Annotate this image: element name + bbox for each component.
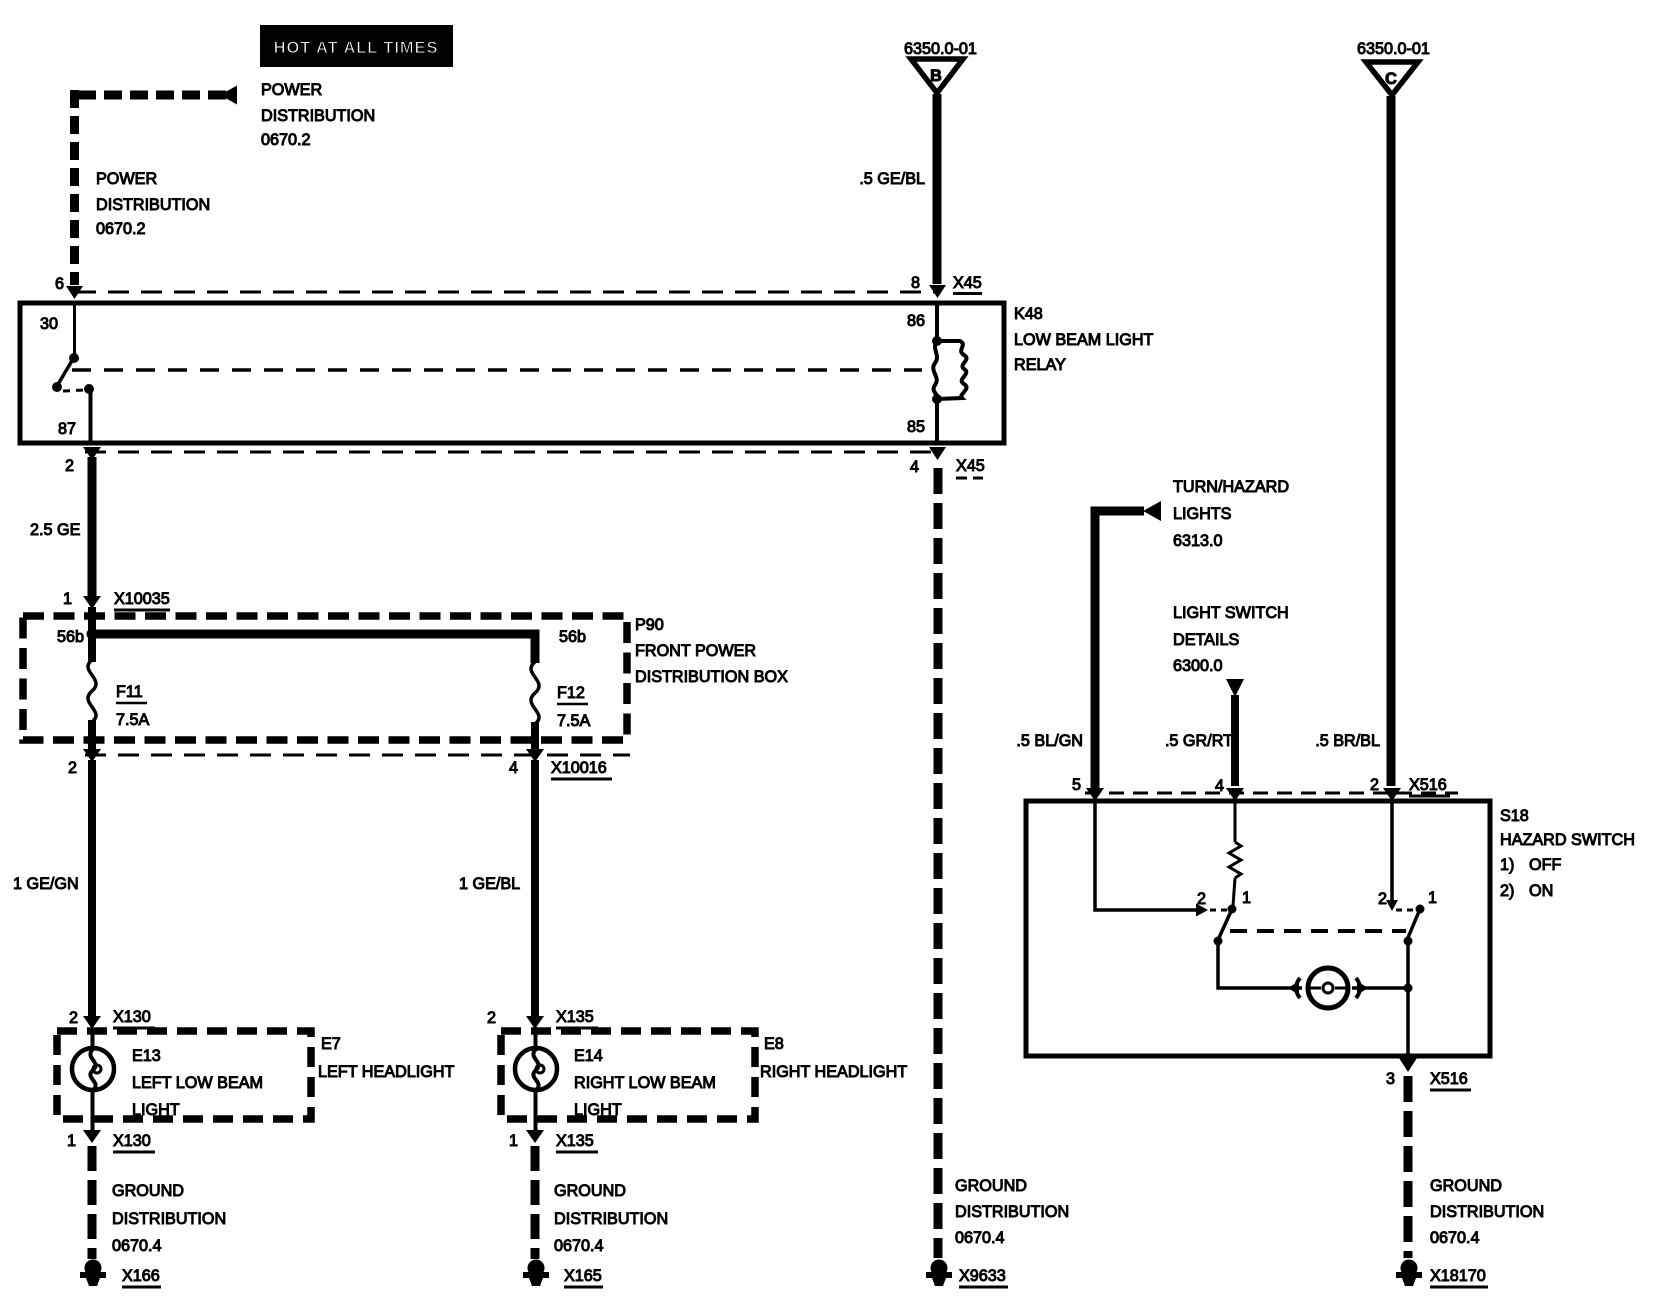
wire: ground distribution left (dashed) xyxy=(88,1146,97,1259)
relay switch lever end dot xyxy=(52,382,62,392)
svg-text:86: 86 xyxy=(907,312,925,330)
svg-text:B: B xyxy=(930,67,942,85)
svg-text:2.5 GE: 2.5 GE xyxy=(30,521,81,539)
contact dash (right switch) xyxy=(1396,909,1415,912)
label K48 low beam light relay xyxy=(1014,305,1154,374)
wire 2.5 GE xyxy=(88,457,97,598)
wire .5 GR/RT xyxy=(1231,695,1239,786)
bulb E14 lead bottom xyxy=(534,1089,538,1131)
relay switch lever xyxy=(57,359,73,386)
connector X45 label (bottom) xyxy=(956,457,985,478)
lamp arrows left xyxy=(1296,978,1300,998)
svg-text:RIGHT HEADLIGHT: RIGHT HEADLIGHT xyxy=(760,1063,907,1081)
wire: relay internal dashed line xyxy=(72,368,922,372)
right switch pivot dot xyxy=(1416,905,1425,914)
svg-text:X10035: X10035 xyxy=(114,590,170,608)
label ground distribution 0670.4 (right headlight) xyxy=(554,1182,668,1255)
svg-text:0670.4: 0670.4 xyxy=(554,1237,604,1255)
svg-text:1: 1 xyxy=(1428,889,1437,907)
svg-text:1: 1 xyxy=(509,1132,518,1150)
ground symbol X9633 xyxy=(926,1260,952,1287)
svg-text:GROUND: GROUND xyxy=(112,1182,184,1200)
pin 30 wire xyxy=(73,305,76,355)
junction pin 4 arrow (relay 85 out) xyxy=(929,447,946,460)
junction pin 2 arrow (S18) xyxy=(1383,788,1401,801)
wire: turn/hazard lights branch xyxy=(1095,511,1144,788)
svg-text:3: 3 xyxy=(1386,1070,1395,1088)
svg-text:0670.4: 0670.4 xyxy=(955,1229,1005,1247)
svg-text:GROUND: GROUND xyxy=(554,1182,626,1200)
svg-text:LOW BEAM LIGHT: LOW BEAM LIGHT xyxy=(1014,331,1154,349)
svg-text:85: 85 xyxy=(907,418,925,436)
svg-text:X516: X516 xyxy=(1430,1070,1468,1088)
svg-text:DISTRIBUTION: DISTRIBUTION xyxy=(96,196,210,214)
wire: dashed connector line X516 xyxy=(1085,792,1458,795)
svg-text:1 GE/BL: 1 GE/BL xyxy=(459,875,520,893)
svg-text:LIGHT SWITCH: LIGHT SWITCH xyxy=(1173,604,1289,622)
svg-text:LEFT LOW BEAM: LEFT LOW BEAM xyxy=(132,1074,263,1092)
svg-text:P90: P90 xyxy=(635,616,664,634)
svg-text:LIGHTS: LIGHTS xyxy=(1173,505,1232,523)
wire 1 GE/BL xyxy=(531,760,539,1016)
wire: power feed dashed (hot at all times) xyxy=(70,90,226,285)
svg-text:X135: X135 xyxy=(556,1132,594,1150)
arrow: light switch details xyxy=(1226,679,1244,697)
label F12 7.5A xyxy=(557,684,591,730)
svg-text:X9633: X9633 xyxy=(959,1267,1006,1285)
wire pin 2 inside S18 xyxy=(1390,800,1394,901)
svg-text:4: 4 xyxy=(1215,777,1224,795)
label S18 hazard switch xyxy=(1500,807,1635,900)
junction pin 2 arrow (P90 left out) xyxy=(83,749,101,762)
svg-text:E13: E13 xyxy=(132,1047,161,1065)
svg-text:1 GE/GN: 1 GE/GN xyxy=(13,875,79,893)
wire: ground distribution relay 85 (dashed) xyxy=(934,468,943,1258)
wire F11 to pin 2 xyxy=(88,720,96,750)
wire .5 BR/BL from C xyxy=(1387,96,1396,786)
arrow: power distribution page reference xyxy=(220,86,237,105)
svg-text:DISTRIBUTION: DISTRIBUTION xyxy=(955,1203,1069,1221)
hazard switch S18 box xyxy=(1026,801,1490,1056)
svg-text:0670.2: 0670.2 xyxy=(96,220,146,238)
wire right lever down xyxy=(1406,941,1410,1055)
connector X130 label (bottom) xyxy=(113,1132,155,1152)
svg-text:7.5A: 7.5A xyxy=(557,712,591,730)
connector X10035 label xyxy=(114,590,170,610)
svg-text:1: 1 xyxy=(1242,889,1251,907)
junction pin 2 arrow (below relay) xyxy=(83,447,101,460)
connector X166 label xyxy=(122,1267,161,1287)
svg-text:F11: F11 xyxy=(116,683,143,701)
wire 1 GE/GN xyxy=(88,760,96,1016)
wire pin 5 inside S18 xyxy=(1095,800,1196,910)
svg-text:X165: X165 xyxy=(564,1267,602,1285)
left switch lever dot xyxy=(1214,937,1223,946)
svg-text:E14: E14 xyxy=(574,1047,603,1065)
left switch pivot dot xyxy=(1228,905,1237,914)
svg-text:DISTRIBUTION BOX: DISTRIBUTION BOX xyxy=(635,668,788,686)
wire: mechanical link (dashed) xyxy=(1230,929,1406,933)
connector X18170 label xyxy=(1430,1267,1488,1287)
svg-text:.5 GR/RT: .5 GR/RT xyxy=(1165,732,1233,750)
svg-text:6350.0-01: 6350.0-01 xyxy=(904,40,977,58)
svg-text:S18: S18 xyxy=(1500,807,1529,825)
headlight E8 dashed box xyxy=(501,1031,755,1119)
arrow: pin 2 contact xyxy=(1386,900,1398,911)
label: power distribution 0670.2 (top) xyxy=(261,81,375,149)
right switch lever xyxy=(1407,909,1420,940)
svg-text:GROUND: GROUND xyxy=(1430,1177,1502,1195)
svg-text:GROUND: GROUND xyxy=(955,1177,1027,1195)
svg-text:4: 4 xyxy=(910,458,919,476)
fuse F12 xyxy=(531,662,539,724)
connector triangle C xyxy=(1366,62,1418,95)
connector X130 label (top) xyxy=(113,1008,155,1028)
svg-text:2): 2) xyxy=(1500,882,1514,900)
svg-text:X10016: X10016 xyxy=(551,759,607,777)
svg-text:X45: X45 xyxy=(956,457,985,475)
junction pin 8 arrow xyxy=(929,285,946,298)
svg-text:X18170: X18170 xyxy=(1430,1267,1486,1285)
connector X45 label (top) xyxy=(953,274,982,294)
pin 86 wire xyxy=(935,305,939,338)
label ground distribution 0670.4 (left) xyxy=(112,1182,226,1255)
label light switch details 6300.0 xyxy=(1173,604,1289,675)
svg-text:ON: ON xyxy=(1529,882,1553,900)
svg-text:LIGHT: LIGHT xyxy=(132,1101,180,1119)
label E8 right headlight xyxy=(760,1035,907,1081)
ground symbol X165 xyxy=(523,1260,549,1287)
indicator lamp in S18 xyxy=(1308,968,1348,1008)
svg-text:4: 4 xyxy=(509,759,518,777)
wire: dashed connector line below relay xyxy=(85,451,940,454)
svg-text:E8: E8 xyxy=(764,1035,784,1053)
wire: dashed connector line at relay top xyxy=(75,291,940,294)
fuse F11 xyxy=(88,660,96,722)
svg-text:OFF: OFF xyxy=(1529,856,1561,874)
svg-text:2: 2 xyxy=(65,457,74,475)
ground symbol X166 xyxy=(80,1260,106,1287)
svg-text:X516: X516 xyxy=(1409,776,1447,794)
svg-text:7.5A: 7.5A xyxy=(116,711,150,729)
svg-text:F12: F12 xyxy=(557,684,585,702)
junction pin 4 arrow (P90 right out) xyxy=(526,749,544,762)
svg-text:POWER: POWER xyxy=(261,81,322,99)
svg-text:.5 GE/BL: .5 GE/BL xyxy=(859,170,925,188)
relay K48 box xyxy=(20,303,1004,443)
svg-text:2: 2 xyxy=(68,759,77,777)
svg-text:DETAILS: DETAILS xyxy=(1173,631,1239,649)
svg-text:DISTRIBUTION: DISTRIBUTION xyxy=(554,1210,668,1228)
bulb E14 right low beam light xyxy=(515,1048,557,1090)
svg-text:6: 6 xyxy=(55,275,64,293)
svg-text:LIGHT: LIGHT xyxy=(574,1101,622,1119)
lamp arrows right xyxy=(1356,978,1360,998)
wire .5 GE/BL from B xyxy=(933,94,942,284)
left switch lever xyxy=(1218,909,1232,940)
label ground distribution 0670.4 (hazard) xyxy=(1430,1177,1544,1247)
connector X165 label xyxy=(564,1267,603,1287)
svg-text:.5 BR/BL: .5 BR/BL xyxy=(1315,732,1380,750)
right switch lever dot xyxy=(1404,937,1413,946)
svg-text:TURN/HAZARD: TURN/HAZARD xyxy=(1173,478,1289,496)
relay contact dashes xyxy=(63,390,86,391)
svg-text:30: 30 xyxy=(40,315,58,333)
bulb E14 lead top xyxy=(534,1029,538,1051)
connector X135 label (bottom) xyxy=(556,1132,598,1152)
wire: dashed connector line below P90 xyxy=(85,754,630,757)
label E7 left headlight xyxy=(318,1035,455,1081)
junction X130 pin 1 arrow xyxy=(83,1130,101,1143)
svg-text:8: 8 xyxy=(911,274,920,292)
arrow: pin 5 contact xyxy=(1196,904,1208,917)
svg-text:.5 BL/GN: .5 BL/GN xyxy=(1016,732,1083,750)
headlight E7 dashed box xyxy=(57,1031,311,1119)
svg-text:X45: X45 xyxy=(953,274,982,292)
label P90 front power distribution box xyxy=(635,616,788,686)
svg-text:X130: X130 xyxy=(113,1008,151,1026)
bulb E13 lead bottom xyxy=(91,1089,95,1131)
connector X10016 label xyxy=(551,759,612,779)
node 56b dot xyxy=(87,629,98,640)
label E14 right low beam light xyxy=(574,1047,716,1119)
svg-text:DISTRIBUTION: DISTRIBUTION xyxy=(261,107,375,125)
connector triangle B xyxy=(911,59,963,93)
svg-text:0670.4: 0670.4 xyxy=(1430,1229,1480,1247)
svg-text:5: 5 xyxy=(1072,776,1081,794)
svg-text:2: 2 xyxy=(69,1009,78,1027)
pin 85 wire xyxy=(935,401,939,441)
svg-text:6300.0: 6300.0 xyxy=(1173,657,1223,675)
svg-text:RIGHT LOW BEAM: RIGHT LOW BEAM xyxy=(574,1074,716,1092)
ground symbol X18170 xyxy=(1396,1260,1422,1287)
svg-text:56b: 56b xyxy=(559,628,586,646)
relay switch pivot dot xyxy=(69,353,79,363)
connector X9633 label xyxy=(959,1267,1008,1287)
junction X130 pin 2 arrow xyxy=(83,1016,101,1029)
label: power distribution 0670.2 (left) xyxy=(96,170,210,238)
junction pin 6 arrow xyxy=(66,286,83,299)
wire: ground distribution right headlight (dashed) xyxy=(531,1146,540,1259)
coil bottom dot xyxy=(932,394,942,404)
pin 87 wire xyxy=(89,391,93,442)
connector X516 label (bottom) xyxy=(1430,1070,1471,1090)
junction pin 4 arrow xyxy=(1226,788,1244,801)
svg-text:56b: 56b xyxy=(57,628,84,646)
svg-text:LEFT HEADLIGHT: LEFT HEADLIGHT xyxy=(318,1063,455,1081)
svg-text:E7: E7 xyxy=(321,1035,341,1053)
svg-text:FRONT POWER: FRONT POWER xyxy=(635,642,756,660)
connector X516 label (top) xyxy=(1409,776,1450,796)
relay contact 87 dot xyxy=(84,384,94,394)
svg-text:POWER: POWER xyxy=(96,170,157,188)
svg-text:1): 1) xyxy=(1500,856,1514,874)
wire lamp to right switch xyxy=(1352,986,1408,990)
svg-text:DISTRIBUTION: DISTRIBUTION xyxy=(1430,1203,1544,1221)
svg-text:X130: X130 xyxy=(113,1132,151,1150)
svg-text:1: 1 xyxy=(67,1132,76,1150)
wire into P90 xyxy=(88,607,96,634)
svg-text:0670.2: 0670.2 xyxy=(261,131,311,149)
wire: 56b bus bar xyxy=(92,634,535,663)
label ground distribution 0670.4 (middle) xyxy=(955,1177,1069,1247)
bulb E13 left low beam light xyxy=(72,1048,114,1090)
wire lever to lamp xyxy=(1218,941,1302,988)
fuse box P90 dashed outline xyxy=(23,616,627,740)
junction X10035 arrow xyxy=(83,596,101,609)
svg-text:HAZARD SWITCH: HAZARD SWITCH xyxy=(1500,831,1635,849)
wire F12 to pin 4 xyxy=(531,722,539,750)
wire 56b to F11 xyxy=(88,634,96,662)
contact dash (left switch) xyxy=(1210,909,1228,912)
svg-text:87: 87 xyxy=(58,420,76,438)
svg-text:X166: X166 xyxy=(122,1267,160,1285)
resistor in S18 xyxy=(1229,800,1241,906)
svg-text:X135: X135 xyxy=(556,1008,594,1026)
bulb E13 lead top xyxy=(91,1029,95,1051)
svg-text:RELAY: RELAY xyxy=(1014,356,1066,374)
label turn/hazard lights 6313.0 xyxy=(1173,478,1289,550)
node dot right xyxy=(1404,984,1413,993)
junction pin 5 arrow xyxy=(1086,788,1104,801)
wire: ground distribution hazard (dashed) xyxy=(1404,1076,1413,1258)
relay coil K48 xyxy=(933,341,966,399)
svg-text:2: 2 xyxy=(1378,890,1387,908)
svg-text:6350.0-01: 6350.0-01 xyxy=(1357,40,1430,58)
label E13 left low beam light xyxy=(132,1047,263,1119)
svg-text:1: 1 xyxy=(63,590,72,608)
svg-text:2: 2 xyxy=(1370,776,1379,794)
arrow: turn/hazard lights page reference xyxy=(1143,501,1161,521)
coil top dot xyxy=(932,336,942,346)
svg-text:2: 2 xyxy=(1197,890,1206,908)
svg-text:HOT AT ALL TIMES: HOT AT ALL TIMES xyxy=(274,39,439,57)
label F11 7.5A xyxy=(116,683,150,729)
svg-text:K48: K48 xyxy=(1014,305,1043,323)
svg-text:0670.4: 0670.4 xyxy=(112,1237,162,1255)
junction pin 3 arrow xyxy=(1399,1058,1417,1072)
svg-text:DISTRIBUTION: DISTRIBUTION xyxy=(112,1210,226,1228)
junction X135 pin 1 arrow xyxy=(526,1130,544,1143)
hot at all times label box xyxy=(260,25,453,67)
svg-text:2: 2 xyxy=(487,1009,496,1027)
junction X135 pin 2 arrow xyxy=(526,1016,544,1029)
svg-text:6313.0: 6313.0 xyxy=(1173,532,1223,550)
svg-text:C: C xyxy=(1385,70,1397,88)
connector X135 label (top) xyxy=(556,1008,598,1028)
